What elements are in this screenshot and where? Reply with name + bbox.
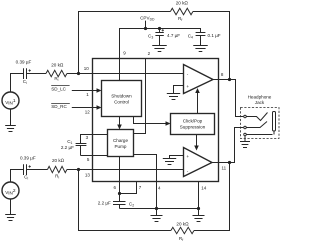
jack ring contact [246, 122, 267, 128]
svg-text:20 kΩ: 20 kΩ [52, 158, 65, 163]
wire: IN1 input line [11, 74, 184, 93]
resistor Ri ch2 (20 kOhm) [48, 166, 67, 172]
wire gnd hook of op-amp U1 [174, 86, 184, 94]
jack sleeve wire [246, 134, 272, 136]
svg-text:13: 13 [85, 172, 91, 177]
ground (VIN1) [5, 126, 16, 132]
wire gnd hook of op-amp U2 [170, 156, 184, 159]
svg-text:0.39 µF: 0.39 µF [20, 156, 36, 161]
svg-text:Jack: Jack [255, 100, 265, 105]
svg-text:SD_RC: SD_RC [51, 104, 67, 109]
node dot OUT1 [228, 78, 231, 81]
wire OUT2 (pin 11) to jack ring [212, 128, 243, 163]
svg-text:0.39 µF: 0.39 µF [16, 60, 32, 65]
wire CPVDD stub [145, 21, 147, 29]
wire shutdown to click/pop [134, 117, 167, 124]
wire pin9 to shutdown [119, 59, 121, 81]
source VIN1 [2, 92, 19, 109]
svg-text:Suppression: Suppression [180, 125, 206, 130]
svg-text:0.1 µF: 0.1 µF [208, 33, 221, 38]
svg-text:Pump: Pump [114, 144, 126, 149]
svg-text:11: 11 [222, 166, 227, 171]
IC outline box [93, 59, 219, 182]
node: IN1- junction dot [77, 72, 80, 75]
wire click/pop to bottom op-amp (arrow down) [196, 135, 198, 147]
wire SD_LC to pin 1 [72, 90, 97, 92]
resistor Ri ch1 (20 kOhm) [46, 70, 67, 76]
wire VIN2 to ground [10, 199, 12, 215]
wire pin 5 [81, 155, 108, 157]
svg-text:Headphone: Headphone [248, 94, 272, 99]
op-amp U1 (top) [184, 65, 214, 94]
svg-text:Shutdown: Shutdown [111, 93, 132, 98]
capacitor C4 (0.1 uF) [196, 33, 206, 46]
block: Click/Pop Suppression [171, 114, 215, 135]
svg-text:14: 14 [201, 186, 207, 191]
wire pin 7 [120, 182, 137, 194]
wire VIN1 to ground [10, 109, 12, 126]
wire shutdown to charge pump (arrow) [119, 117, 121, 126]
headphone jack dashed box [241, 108, 280, 139]
wire pin 4 (charge pump to gnd bus) [134, 155, 157, 209]
ground (pin 14) [198, 209, 200, 216]
svg-text:+: + [186, 84, 189, 89]
svg-text:SD_LC: SD_LC [51, 86, 66, 91]
svg-text:+: + [186, 154, 189, 159]
ground (C3) [152, 46, 167, 52]
wire: IN2 input line [11, 170, 184, 183]
node dot pin6/7 [118, 192, 121, 195]
svg-text:20 kΩ: 20 kΩ [176, 1, 189, 6]
svg-text:4.7 µF: 4.7 µF [167, 33, 180, 38]
ground (C4) [193, 46, 208, 52]
jack plug barrel [273, 112, 276, 132]
resistor Rf (bottom, 20 kOhm) [171, 227, 194, 233]
svg-text:2.2 µF: 2.2 µF [61, 145, 74, 150]
node dot pin4 gnd [155, 207, 158, 210]
svg-text:Charge: Charge [113, 138, 129, 143]
svg-text:2.2 µF: 2.2 µF [98, 201, 111, 206]
wire sleeve to ground [244, 136, 246, 142]
node dot pin14 gnd [197, 207, 200, 210]
node dot C3 tap [158, 27, 161, 30]
ground (U1 +input) [167, 94, 180, 100]
wire pin 14 [198, 182, 200, 209]
jack tip terminal [244, 115, 247, 118]
wire pin 3 [81, 135, 108, 144]
svg-text:12: 12 [85, 109, 91, 114]
jack barrel stem [273, 131, 275, 135]
wire: CPVDD rail to pin 9 / pin 2 / C3 / C4 [120, 29, 201, 59]
wire click/pop to top op-amp (arrow up) [197, 93, 199, 114]
op-amp U2 (bottom) [184, 148, 213, 177]
ground (U2 +input) [163, 159, 176, 165]
jack sleeve terminal [244, 133, 247, 136]
svg-text:20 kΩ: 20 kΩ [51, 63, 64, 68]
resistor Rf (top, 20 kOhm) [170, 8, 193, 14]
capacitor Ci (0.39 uF) ch1 [24, 68, 27, 79]
capacitor C1 (2.2 uF flying cap) [76, 144, 87, 156]
capacitor Ci (0.39 uF) ch2 [24, 164, 27, 175]
source VIN2 [2, 182, 19, 199]
wire bottom feedback loop OUT2 to IN2- [79, 163, 230, 231]
block: Shutdown Control [102, 81, 142, 117]
jack ring terminal [244, 126, 247, 129]
wire pin 6 [119, 157, 121, 194]
node dot IN2- [77, 168, 80, 171]
wire pin2 to charge pump [134, 59, 146, 134]
ground (pin 4) [156, 209, 158, 216]
jack tip contact [246, 113, 267, 121]
wire pin 13 (IN2-) [79, 169, 184, 171]
wire SD_RC to pin 12 [72, 107, 97, 109]
capacitor C2 (2.2 uF) [113, 194, 126, 209]
node dot pin2/CPVDD [144, 27, 147, 30]
svg-text:Click/Pop: Click/Pop [183, 118, 203, 123]
block: Charge Pump [108, 130, 134, 157]
ground (jack sleeve) [240, 142, 250, 148]
capacitor C3 (4.7 uF) [155, 29, 163, 46]
wire: top feedback loop OUT1 to IN1- [79, 12, 230, 80]
wire ground bus [120, 208, 199, 210]
svg-text:20 kΩ: 20 kΩ [176, 222, 189, 227]
wire OUT1 (pin 8) to jack tip [213, 80, 243, 117]
svg-text:Control: Control [114, 100, 129, 105]
node dot OUT2 [228, 161, 231, 164]
svg-text:10: 10 [84, 66, 90, 71]
ground (VIN2) [5, 215, 16, 221]
